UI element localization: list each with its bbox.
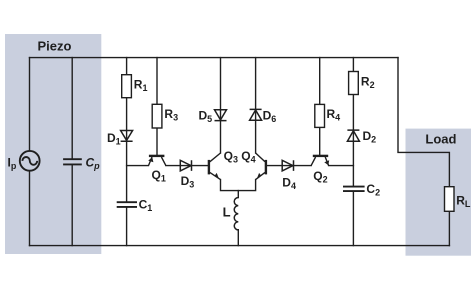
svg-text:Piezo: Piezo: [38, 39, 72, 54]
svg-text:D2: D2: [363, 129, 377, 145]
svg-text:D3: D3: [181, 174, 195, 190]
svg-text:C2: C2: [366, 182, 380, 198]
svg-text:Q2: Q2: [313, 169, 327, 185]
svg-text:Q3 Q4: Q3 Q4: [224, 149, 256, 165]
svg-text:L: L: [223, 204, 231, 219]
svg-text:Q1: Q1: [152, 168, 166, 184]
svg-text:R2: R2: [361, 74, 375, 90]
svg-text:D5: D5: [199, 109, 213, 125]
svg-text:D4: D4: [282, 176, 296, 192]
svg-text:R4: R4: [327, 107, 341, 123]
svg-text:Load: Load: [425, 131, 456, 146]
svg-text:D1: D1: [107, 131, 121, 147]
svg-text:D6: D6: [263, 109, 277, 125]
svg-text:R1: R1: [134, 78, 148, 94]
svg-text:R3: R3: [164, 107, 178, 123]
svg-text:C1: C1: [139, 198, 153, 214]
